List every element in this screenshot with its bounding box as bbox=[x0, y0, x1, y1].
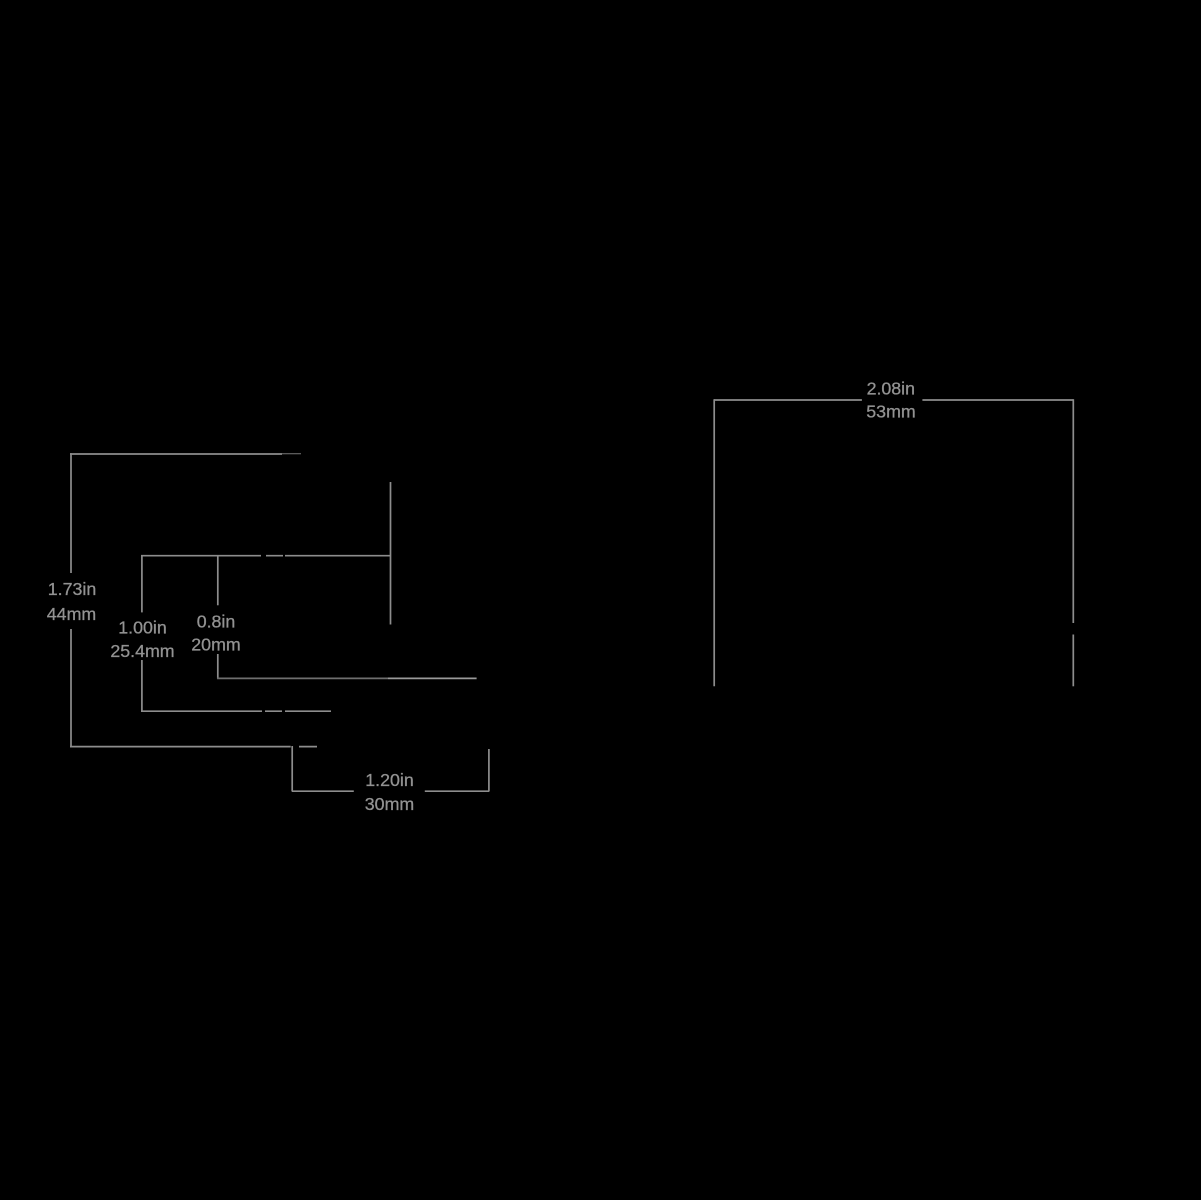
svg-text:53mm: 53mm bbox=[866, 402, 915, 422]
dim A bottom extension line bbox=[70, 746, 291, 748]
dim C bottom extension line dim part bbox=[217, 677, 388, 679]
dim B (1.00in/25.4mm) top extension line bbox=[141, 555, 261, 557]
dim E left extension vertical bbox=[713, 399, 715, 686]
dim D right extension vertical bbox=[488, 749, 490, 792]
dim B vertical line lower bbox=[141, 660, 143, 712]
dim A top extension taper bbox=[282, 453, 301, 455]
dim D dimension line right segment bbox=[425, 790, 489, 792]
dim C (0.8in/20mm) vertical line upper bbox=[217, 555, 219, 605]
svg-text:2.08in: 2.08in bbox=[867, 379, 915, 399]
dim E (2.08in/53mm) dimension line left segment bbox=[714, 399, 862, 401]
svg-text:25.4mm: 25.4mm bbox=[110, 641, 174, 661]
dim B vertical line upper bbox=[141, 555, 143, 612]
svg-text:0.8in: 0.8in bbox=[197, 612, 236, 632]
svg-text:1.20in: 1.20in bbox=[365, 770, 413, 790]
dim A vertical line lower bbox=[70, 629, 72, 747]
dim E right extension vertical lower bbox=[1072, 635, 1074, 687]
dim C vertical line lower bbox=[217, 654, 219, 679]
dim E dimension line right segment bbox=[922, 399, 1073, 401]
dim D dimension line left segment bbox=[292, 790, 354, 792]
dim A (1.73in/44mm) top extension line bbox=[70, 453, 282, 455]
svg-text:20mm: 20mm bbox=[191, 635, 240, 655]
product edge vertical line bbox=[390, 482, 392, 625]
dim B bottom extension line bbox=[141, 710, 262, 712]
svg-text:1.00in: 1.00in bbox=[118, 618, 166, 638]
svg-text:30mm: 30mm bbox=[365, 794, 414, 814]
svg-text:1.73in: 1.73in bbox=[48, 579, 96, 599]
dim D (1.20in/30mm) left extension vertical bbox=[291, 746, 293, 792]
dim C bottom extension line bright part bbox=[388, 677, 477, 679]
dim A vertical line upper bbox=[70, 453, 72, 573]
svg-text:44mm: 44mm bbox=[47, 604, 96, 624]
dim A bottom extension dash bbox=[299, 746, 317, 748]
dim E right extension vertical upper bbox=[1072, 399, 1074, 623]
